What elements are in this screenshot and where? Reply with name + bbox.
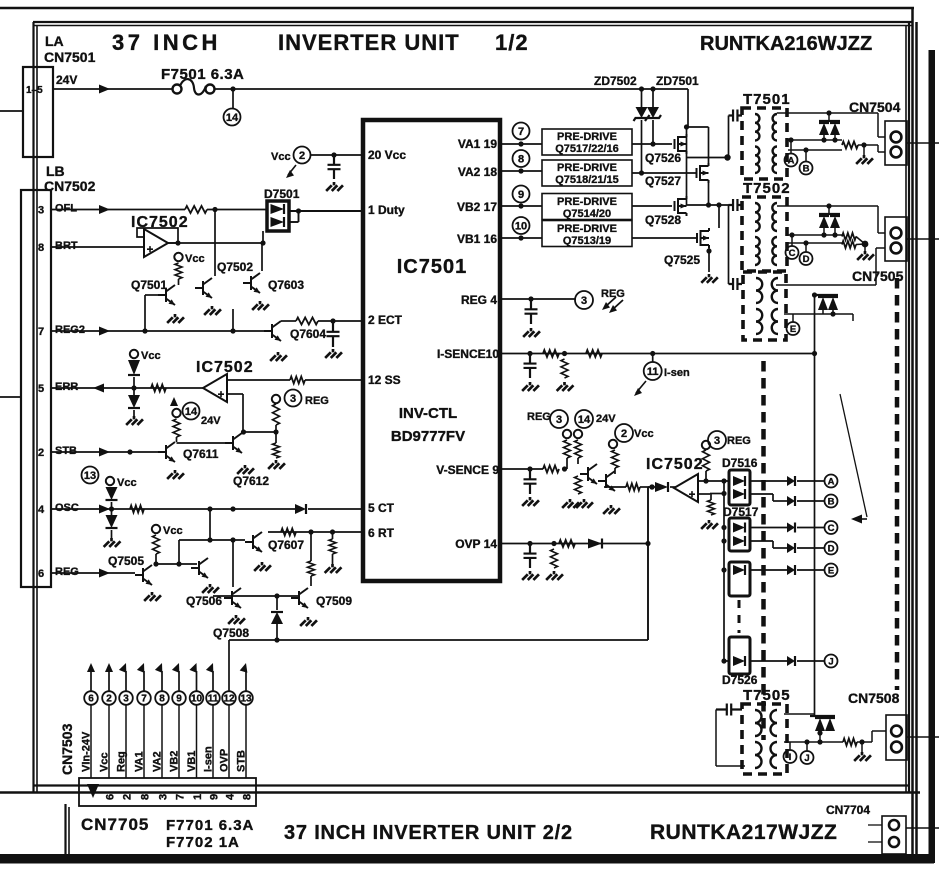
connector CN7505: [885, 217, 907, 261]
ground REG divider: [268, 460, 285, 469]
junction node C tap: [789, 232, 794, 237]
junction: [821, 232, 826, 237]
ground V-SENCE cap: [522, 497, 539, 506]
resistor OSC series: [130, 506, 144, 513]
wire T7505 primary left: [715, 710, 717, 767]
svg-text:VA2: VA2: [152, 751, 164, 772]
wire node to Q7603: [261, 243, 263, 271]
circled 2 Vcc: [615, 424, 633, 442]
svg-text:OVP: OVP: [219, 749, 231, 772]
diagonal pointer line: [840, 394, 867, 517]
svg-text:3: 3: [290, 393, 296, 405]
zener D secondary T7502 a: [819, 216, 829, 228]
op-amp IC7502a: [144, 229, 168, 257]
wire arrow lead pin 7: [143, 671, 145, 692]
transistor Q7526 MOSFET: [675, 134, 687, 154]
svg-text:BD9777FV: BD9777FV: [391, 428, 465, 445]
wire opamp1 feedback loop: [137, 228, 178, 243]
winding T7505 primary upper: [755, 710, 762, 736]
diode D7526: [733, 656, 745, 666]
svg-text:Vcc: Vcc: [99, 752, 111, 772]
wire Q7527 source drop: [708, 181, 710, 205]
wire res to input: [705, 471, 707, 481]
diode T7505 a: [815, 718, 825, 731]
wire T7502 secondary top: [777, 205, 878, 207]
svg-text:2: 2: [299, 150, 305, 162]
svg-text:2: 2: [106, 694, 112, 705]
ground OSC diodes: [104, 538, 121, 547]
svg-text:37 INCH: 37 INCH: [112, 30, 221, 55]
transformer T7501 box: [742, 108, 787, 179]
wire D7517b out a: [750, 540, 773, 542]
svg-text:Q7514/20: Q7514/20: [563, 208, 611, 220]
wire to circled I: [789, 742, 791, 750]
transformer T7505 box: [742, 704, 787, 774]
node D circled: [825, 542, 838, 555]
capacitor OVP: [524, 544, 537, 569]
svg-text:8: 8: [518, 153, 524, 165]
circled 14 vsence: [575, 410, 593, 428]
wire CN7504 exit right: [907, 142, 939, 144]
wire VB2 to PRE-DRIVE 3: [500, 205, 542, 207]
wire to circled A: [797, 480, 824, 482]
wire VA1 to PRE-DRIVE 1: [500, 143, 542, 145]
connector CN7508: [886, 715, 907, 760]
ground RT resistor: [325, 564, 342, 573]
wire 24V node to Q7527 drain: [687, 126, 709, 128]
wire D7516b jog: [772, 494, 774, 501]
resistor from 24V vsence: [575, 440, 582, 458]
svg-text:13: 13: [240, 694, 252, 705]
junction D7518 in: [721, 567, 726, 572]
wire opamp3 +input: [698, 493, 710, 495]
wire stub CN7504 pin1: [878, 136, 885, 138]
junction Q7612 collector: [241, 429, 246, 434]
arrow pin 8: [155, 662, 166, 673]
wire stub CN7505 pin1: [878, 232, 885, 234]
resistor ERR series: [151, 385, 166, 392]
junction Q7527/Q7528 node: [706, 202, 711, 207]
wire ERR diode to ground: [133, 410, 135, 416]
circled 11: [644, 362, 662, 380]
resistor OVP shunt: [551, 549, 558, 568]
terminal REG vsence: [563, 430, 571, 438]
resistor vsence lower: [575, 476, 582, 494]
junction D7516 in a: [721, 478, 726, 483]
diode pack D7518 box: [729, 562, 750, 596]
junction REG4 cap: [528, 296, 533, 301]
connector CN7704: [882, 816, 906, 854]
wire Q7525 source to ground: [708, 246, 710, 272]
ground Q7612: [237, 465, 254, 474]
junction gnd T7501: [861, 142, 866, 147]
circled 10: [513, 217, 530, 234]
winding T7503 secondary upper: [772, 278, 778, 303]
pin circled 8 CN7503: [155, 691, 169, 705]
wire stub CN7704 b: [868, 841, 882, 843]
wire zener bar T7501: [819, 120, 840, 122]
junction REG2 branch: [230, 328, 235, 333]
junction REG2 to Q7501: [142, 328, 147, 333]
svg-text:14: 14: [578, 414, 591, 426]
svg-text:OSC: OSC: [55, 502, 79, 514]
svg-text:E: E: [828, 565, 834, 576]
svg-text:LB: LB: [46, 163, 65, 179]
svg-text:Vcc: Vcc: [163, 525, 183, 537]
svg-text:IC7502: IC7502: [646, 456, 704, 473]
wire to circled E: [797, 569, 824, 571]
supply Vcc terminal 2: [130, 350, 138, 358]
svg-text:BRT: BRT: [55, 240, 78, 252]
arrow OSC: [99, 505, 110, 514]
node B circled at T7501: [800, 162, 813, 175]
ground Q7506: [202, 584, 219, 593]
resistor I-SENCE a: [543, 350, 559, 357]
junction: [832, 137, 837, 142]
svg-text:3: 3: [714, 435, 720, 447]
winding T7503 primary upper: [756, 278, 762, 303]
diode T7505 b: [825, 718, 835, 731]
winding T7501 primary lower: [755, 147, 759, 174]
ground Q7611: [167, 470, 184, 479]
svg-text:10: 10: [515, 220, 527, 232]
junction circled 9: [518, 203, 523, 208]
arrow ERR: [93, 384, 104, 393]
ground opamp3: [701, 520, 718, 529]
wire to circled J: [797, 660, 824, 662]
diode OSC lower: [106, 515, 118, 528]
svg-text:Q7528: Q7528: [645, 213, 681, 227]
frame 1/2 left line b: [36, 25, 38, 793]
wire OSC to base line: [209, 509, 211, 540]
wire 24V rail drop to half-bridge: [687, 89, 689, 127]
wire zener bar stub T7501: [828, 113, 830, 121]
junction: [821, 137, 826, 142]
capacitor T7503 primary: [729, 278, 743, 290]
ground Q7525: [701, 274, 718, 283]
wire REG to Q7505 base: [51, 572, 135, 574]
svg-text:2: 2: [38, 447, 44, 459]
wire VA2 to PRE-DRIVE 2: [500, 170, 542, 172]
junction: [832, 232, 837, 237]
wire to circled 14: [232, 89, 234, 108]
transistor Q7528 MOSFET: [675, 196, 687, 216]
junction node D tap: [803, 240, 808, 245]
svg-text:LA: LA: [45, 33, 64, 49]
wire OSC to CT: [51, 508, 295, 510]
winding T7505 secondary upper: [771, 710, 777, 736]
svg-text:RUNTKA216WJZZ: RUNTKA216WJZZ: [700, 33, 872, 55]
resistor: [843, 739, 857, 746]
svg-text:VB2 17: VB2 17: [457, 200, 497, 214]
svg-text:ERR: ERR: [55, 381, 78, 393]
junction circled 7: [518, 141, 523, 146]
wire I-sen bus upper: [814, 295, 816, 354]
svg-text:3: 3: [38, 205, 44, 217]
supply REG terminal: [272, 395, 280, 403]
svg-text:24V: 24V: [56, 73, 77, 87]
border right thick bar: [929, 50, 936, 863]
connector CN7501 box: [23, 67, 53, 157]
transistor Q7509: [291, 588, 308, 608]
junction T7503 row: [830, 311, 835, 316]
border outer right line: [911, 8, 914, 862]
junction ECT cap: [330, 318, 335, 323]
wire T7501 row a: [788, 139, 842, 141]
resistor from REG vsence: [564, 440, 571, 458]
wire gate Q7527: [632, 172, 696, 174]
wire node join: [648, 486, 652, 488]
wire T7501 secondary top: [777, 112, 878, 114]
svg-text:REG 4: REG 4: [461, 293, 497, 307]
wire ZD7502 lower lead to Q7527 gate: [641, 120, 643, 173]
ground vsence b: [576, 499, 593, 508]
wire to CN7504 pin1: [877, 113, 879, 137]
wire Q7501 base to REG2: [144, 295, 146, 331]
wire pin 8 to CN7705: [161, 705, 163, 778]
resistor: [842, 142, 858, 149]
ground Q7603: [252, 301, 269, 310]
svg-text:14: 14: [226, 112, 239, 124]
diode D7501 upper: [271, 204, 285, 214]
zener D secondary T7503 b: [828, 297, 838, 310]
svg-text:REG2: REG2: [55, 324, 85, 336]
transistor vsence pair b: [598, 471, 615, 491]
junction opamp3 node: [649, 484, 654, 489]
wire I-sen bus to T7505: [814, 354, 816, 716]
svg-text:V-SENCE 9: V-SENCE 9: [436, 463, 499, 477]
wire +input to res: [710, 494, 712, 500]
wire opamp1 output: [167, 242, 263, 244]
wire arrow lead pin 3: [125, 671, 127, 692]
ground T7505 secondary: [854, 752, 871, 761]
junction circled 8: [518, 168, 523, 173]
zener ZD7501: [647, 107, 659, 118]
junction Q7505 collector: [153, 561, 158, 566]
junction Q7525 source: [706, 248, 711, 253]
winding T7502 primary lower: [755, 237, 760, 265]
wire Q7607 base line: [179, 539, 245, 541]
svg-text:1: 1: [192, 794, 204, 800]
junction base line b: [230, 537, 235, 542]
diode row C: [787, 523, 795, 533]
frame 1/2 bottom line a: [33, 784, 908, 786]
arrow pin 13: [240, 662, 250, 673]
diode ERR upper: [128, 360, 140, 375]
arrow up 24V: [170, 397, 178, 406]
transistor Q7502: [195, 278, 212, 298]
svg-text:C: C: [828, 523, 835, 534]
wire to circled D2: [805, 243, 807, 252]
junction T7501 primary feed: [724, 154, 730, 160]
svg-text:D7501: D7501: [264, 187, 300, 201]
arrow REG: [99, 569, 110, 578]
svg-text:24V: 24V: [201, 415, 221, 427]
junction vsence node: [562, 466, 567, 471]
diode row B: [787, 496, 795, 506]
wire +input to D7516 lower: [710, 493, 724, 495]
svg-text:8: 8: [140, 794, 152, 800]
wire STB rail horizontal: [229, 639, 648, 641]
junction T7505 row: [817, 739, 822, 744]
svg-text:3: 3: [581, 295, 587, 307]
wire to IC pin2 ECT: [318, 320, 363, 322]
wire REG divider mid: [275, 425, 277, 443]
junction vsence cap: [527, 466, 532, 471]
diode OSC upper: [106, 487, 118, 500]
op-amp IC7502c: [674, 474, 698, 502]
diode D7517 a: [733, 523, 745, 533]
junction D7517 in a: [721, 525, 726, 530]
wire D7526 out: [750, 660, 787, 662]
wire pin 7 to CN7705: [143, 705, 145, 778]
svg-text:VA1: VA1: [134, 751, 146, 772]
capacitor T7501 primary: [729, 110, 743, 122]
wire base line down to Q7505 node: [178, 540, 180, 564]
winding T7501 secondary lower: [773, 147, 777, 174]
wire to circled C: [797, 527, 824, 529]
wire D7517b out b: [773, 547, 787, 549]
svg-text:Q7611: Q7611: [183, 447, 219, 461]
svg-text:5 CT: 5 CT: [368, 501, 395, 515]
svg-text:I-sen: I-sen: [203, 746, 215, 772]
wire D7501 bottom to node: [262, 231, 264, 243]
ground vsence pair: [603, 505, 620, 514]
diode row A: [787, 476, 795, 486]
resistor Q7509 base: [308, 561, 315, 576]
winding T7502 secondary upper: [772, 203, 777, 231]
arrow REG4 pointer: [605, 297, 623, 310]
capacitor V-SENCE: [524, 469, 537, 494]
wire Q7526 source to T7501: [687, 157, 729, 159]
wire D7516b out a: [750, 493, 773, 495]
capacitor Vcc pin20: [328, 155, 341, 179]
wire arrow lead pin 13: [245, 671, 247, 692]
wire gate Q7526: [632, 143, 672, 145]
svg-text:F7701 6.3A: F7701 6.3A: [166, 817, 254, 834]
svg-text:Q7612: Q7612: [233, 474, 269, 488]
wire zener b to row T7502: [834, 228, 836, 235]
ground REG4 cap: [523, 328, 540, 337]
wire zener b to row T7503: [832, 310, 834, 314]
resistor REG lower: [273, 443, 280, 458]
svg-text:ZD7501: ZD7501: [656, 74, 699, 88]
svg-text:2: 2: [122, 794, 134, 800]
ground OVP shunt: [546, 571, 563, 580]
junction ZD7502 gate Q7527: [639, 170, 644, 175]
svg-text:F7501 6.3A: F7501 6.3A: [161, 66, 244, 83]
wire to circled J2: [806, 742, 808, 751]
wire Q7612 to REG divider: [244, 431, 277, 433]
wire D7518 out: [750, 569, 787, 571]
junction ERR diodes: [131, 385, 136, 390]
wire stub to CN7501 from left edge: [0, 110, 23, 112]
wire drop to T7503 cap: [728, 205, 730, 284]
border outer top line: [0, 7, 914, 10]
svg-text:9: 9: [176, 694, 182, 705]
wire OVP: [500, 543, 648, 545]
circled 14 b: [183, 403, 200, 420]
junction ZD7501 on 24V rail: [650, 86, 655, 91]
junction Q7505/base line: [176, 561, 181, 566]
svg-text:STB: STB: [236, 750, 248, 772]
wire T7505 primary bottom: [716, 765, 745, 767]
wire res to q cluster: [577, 458, 579, 464]
wire BRT to opamp1 +input: [51, 246, 144, 248]
svg-text:J: J: [828, 656, 833, 667]
svg-text:3: 3: [158, 794, 170, 800]
ground Q7508: [228, 615, 245, 624]
wire CN7505 exit right: [907, 238, 939, 240]
svg-text:Q7502: Q7502: [217, 260, 253, 274]
wire zener a to row T7503: [822, 310, 824, 314]
junction D7517 in b: [721, 538, 726, 543]
wire T7501 row b: [788, 149, 842, 151]
wire diode to opamp3: [670, 486, 676, 488]
svg-text:11: 11: [647, 366, 659, 378]
svg-text:T7502: T7502: [743, 180, 791, 197]
wire pullup to Q7611: [176, 437, 178, 442]
winding T7503 primary lower: [756, 309, 762, 334]
junction OFL branch: [212, 207, 217, 212]
node D circled at T7502: [800, 252, 813, 265]
svg-text:ZD7502: ZD7502: [594, 74, 637, 88]
diode pack D7517 box: [729, 518, 750, 551]
transistor Q7603: [243, 273, 260, 293]
transformer T7502 box: [742, 197, 787, 271]
wire zener bar T7502: [819, 213, 840, 215]
wire zener bar stub T7502: [828, 206, 830, 214]
winding T7502 secondary lower: [772, 237, 777, 265]
circled 3 a: [285, 390, 302, 407]
pin circled 11 CN7503: [206, 691, 220, 705]
frame 1/2 right line a: [905, 26, 907, 794]
junction RT b: [330, 529, 335, 534]
wire I-SENCE: [500, 353, 815, 355]
zener ZD7502: [636, 107, 648, 118]
junction node J tap: [804, 739, 809, 744]
node A circled: [825, 475, 838, 488]
frame 2/2 left line b: [68, 807, 70, 857]
diode D7518: [733, 565, 745, 575]
transistor Q7611: [158, 442, 175, 462]
wire stub CN7505 pin2: [876, 247, 885, 249]
junction T7503 zener bus: [812, 292, 817, 297]
svg-text:D7526: D7526: [722, 673, 758, 687]
wire gate Q7525: [632, 237, 697, 239]
winding T7503 secondary lower: [772, 309, 778, 334]
junction OSC a: [207, 506, 212, 511]
wire D7501 to IC pin1 Duty: [289, 210, 363, 212]
resistor OFL series: [185, 206, 207, 213]
svg-text:VA1 19: VA1 19: [458, 137, 497, 151]
wire opamp3 out to D7516: [698, 480, 729, 482]
resistor RT series: [281, 529, 296, 536]
svg-text:VA2 18: VA2 18: [458, 165, 497, 179]
wire T7503 row end: [852, 314, 854, 321]
wire D7517a out: [750, 527, 787, 529]
transistor Q7501: [158, 285, 175, 305]
wire ZD7502 upper lead: [641, 89, 643, 107]
svg-text:4: 4: [225, 793, 237, 800]
junction diode branch: [274, 593, 279, 598]
block PRE-DRIVE 1 box: [542, 129, 632, 155]
wire VB1 to PRE-DRIVE 4: [500, 237, 542, 239]
wire D7516b out b: [773, 500, 787, 502]
wire Q7528 node to T7502: [687, 204, 729, 206]
circled 2 pin20: [294, 147, 311, 164]
terminal REG opamp3: [702, 441, 710, 449]
